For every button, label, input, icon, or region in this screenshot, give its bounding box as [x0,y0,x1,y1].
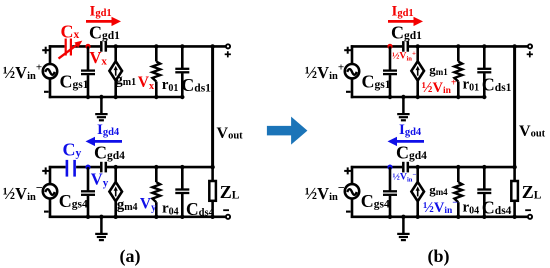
source polarity - mark [44,91,49,93]
voltage source ½Vin+ (a) [43,64,57,78]
dependent current source gm1 (diamond) [411,61,424,80]
wire: Cds4 branch lower [483,194,486,217]
junction dot Cgs1/bottom rail [86,95,90,99]
wire: left rail lower segment [49,199,52,219]
junction dot: Cds4 top [482,165,486,169]
junction dot: output node on top rail [512,44,516,48]
capacitor Cgs1 [81,71,95,75]
wire: Cgs1 branch upper [87,46,90,70]
capacitor Cgs4 [383,191,397,195]
junction dot: Cds1 bottom (rail end) [180,95,184,99]
junction dot: r01 bottom [154,95,158,99]
current Igd4 arrow (b) [388,137,425,146]
wire: dependent source branch lower [416,81,419,97]
wire: top rail right segment to ZL node [107,166,214,169]
wire: left rail lower segment [49,78,52,98]
dependent current source gm4 (diamond) [411,182,424,201]
wire: bottom rail (b top) [351,96,486,99]
capacitor Cds1 [175,69,189,73]
resistor r01 [454,62,462,82]
wire: Cds1 branch upper [181,46,184,68]
wire: dependent source branch upper [114,46,117,61]
junction dot Cgs4/bottom rail [86,215,90,219]
source polarity + mark [344,167,351,174]
junction dot: dependent source bottom [416,215,420,219]
output + mark [527,51,533,57]
wire: Cgs1 branch lower [389,75,392,97]
junction dot: dependent source bottom [114,215,118,219]
junction dot: r04 bottom [456,215,460,219]
wire: Cds4 branch upper [181,167,184,189]
wire: rail between Cx and Cgd1 [72,45,100,48]
resistor r01 [152,62,160,82]
wire: r04 branch lower [457,202,460,217]
junction dot: dependent source top [416,44,420,48]
ground (a bottom) [95,217,107,240]
output + mark [225,51,231,57]
dependent current source gm4 (diamond) [109,182,122,201]
capacitor Cy (blue, series on rail) [67,160,75,177]
wire: bottom rail (b bottom) [351,216,529,219]
wire: top rail left segment (b bottom) [351,166,402,169]
wire: bottom rail (a top) [49,96,184,99]
junction dot: dependent source bottom [416,95,420,99]
junction dot: r01 top [456,44,460,48]
voltage source ½Vin+ (b) [345,64,359,78]
junction dot: ZL bottom [210,215,214,219]
capacitor Cgs4 [81,191,95,195]
junction dot: Cds1 top [482,44,486,48]
wire: Cgs1 branch lower [87,75,90,97]
wire: r04 branch lower [155,202,158,217]
wire: Vout line (a) [211,46,214,167]
ground (b bottom) [397,217,409,240]
wire: ZL upper lead [211,167,214,181]
wire: dependent source branch upper [416,167,419,182]
wire: r01 branch lower [457,82,460,98]
junction dot: ground stem [401,215,405,219]
wire: r04 branch upper [457,167,460,182]
node Vx: red junction dot [85,44,90,49]
transformation arrow (blue, a to b) [267,117,308,145]
wire: dependent source branch lower [114,81,117,97]
wire: Cgs4 branch upper [87,167,90,191]
junction dot: dependent source bottom [114,95,118,99]
wire: Cgs1 branch upper [389,46,392,70]
wire: Cds1 branch lower [181,73,184,97]
junction dot: ground stem [99,95,103,99]
load impedance ZL (rectangle) [511,181,518,201]
capacitor Cds1 [477,69,491,73]
junction dot: r04 top [456,165,460,169]
voltage source ½Vin- (a) [43,184,57,198]
wire: ZL lower lead [513,201,516,217]
junction dot: r04 bottom [154,215,158,219]
wire: dependent source branch upper [416,46,419,61]
source polarity - mark [44,211,49,213]
wire: top rail right segment to output terminal [107,45,226,48]
output - mark [223,209,229,211]
wire: r01 branch upper [457,46,460,61]
node Vy: blue junction dot [85,165,90,170]
capacitor Cgd1 (series, on rail) [403,41,408,52]
junction dot: output node on top rail [210,44,214,48]
dependent current source gm1 (diamond) [109,61,122,80]
ground (a top) [95,97,107,120]
capacitor Cgs1 [383,71,397,75]
svg-text:(a): (a) [120,246,141,267]
wire: r04 branch upper [155,167,158,182]
junction dot: r04 top [154,165,158,169]
wire: Cds4 branch upper [483,167,486,189]
wire: left rail upper segment [49,45,52,64]
capacitor Cds4 [477,190,491,194]
wire: left rail upper segment [351,45,354,64]
wire: Cds1 branch upper [483,46,486,68]
output terminal (-) open circle [226,215,230,219]
wire: Cgs4 branch lower [87,196,90,217]
source polarity + mark [344,47,351,54]
svg-text:(b): (b) [428,246,450,267]
capacitor Cgd4 (series, on rail) [101,162,106,173]
wire: dependent source branch lower [114,201,117,217]
junction dot: ground stem [99,215,103,219]
current Igd1 arrow (red, right) [86,17,121,26]
capacitor Cx (red, variable, series on top rail) [59,39,83,59]
resistor r04 [454,182,462,202]
node ½Vin+: red junction dot [387,44,392,49]
source polarity - mark [346,211,351,213]
junction dot: dependent source top [114,44,118,48]
wire: top rail left segment (a bottom) [49,166,66,169]
source polarity + mark [42,167,49,174]
wire: bottom rail (a bottom) [49,216,227,219]
output - mark [525,209,531,211]
wire: top rail right segment to output terminal [409,45,528,48]
wire: top rail right segment to ZL node [409,166,516,169]
junction dot: r01 top [154,44,158,48]
wire: dependent source branch lower [416,201,419,217]
output terminal (-) open circle [528,215,532,219]
wire: r01 branch upper [155,46,158,61]
wire: Vout line (b) [513,46,516,167]
wire: Cds4 branch lower [181,194,184,217]
junction dot: Cds4 bottom (rail end) [180,215,184,219]
junction dot: r01 bottom [456,95,460,99]
junction dot: dependent source top [114,165,118,169]
wire: ZL lower lead [211,201,214,217]
wire: Cds1 branch lower [483,73,486,97]
wire: dependent source branch upper [114,167,117,182]
wire: r01 branch lower [155,82,158,98]
junction dot: Cds1 top [180,44,184,48]
voltage source ½Vin- (b) [345,184,359,198]
wire: Cgs4 branch lower [389,196,392,217]
capacitor Cgd4 (series, on rail) [403,162,408,173]
junction dot Cgs1/bottom rail [388,95,392,99]
junction dot: dependent source top [416,165,420,169]
wire: left rail lower segment [351,199,354,219]
junction dot: ZL top node [210,165,214,169]
wire: Cgs4 branch upper [389,167,392,191]
junction dot: Cds4 bottom (rail end) [482,215,486,219]
capacitor Cds4 [175,190,189,194]
current Igd1 arrow (b) [388,17,423,26]
wire: left rail upper segment [49,166,52,184]
ground (b top) [397,97,409,120]
current Igd4 arrow (blue, left) [86,137,123,146]
output terminal (+) open circle [226,44,230,48]
wire: top rail left segment (b top) [351,45,402,48]
capacitor Cgd1 (series, on rail) [101,41,106,52]
source polarity + mark [42,47,49,54]
wire: rail between Cy and Cgd4 [76,166,100,169]
wire: left rail upper segment [351,166,354,184]
junction dot: Cds4 top [180,165,184,169]
node ½Vin-: blue junction dot [387,165,392,170]
load impedance ZL (rectangle) [209,181,216,201]
resistor r04 [152,182,160,202]
wire: left rail lower segment [351,78,354,98]
junction dot: ZL top node [512,165,516,169]
source polarity - mark [346,91,351,93]
wire: ZL upper lead [513,167,516,181]
junction dot: ZL bottom [512,215,516,219]
wire: top rail left segment (a top) [49,45,65,48]
junction dot: ground stem [401,95,405,99]
junction dot: Cds1 bottom (rail end) [482,95,486,99]
output terminal (+) open circle [528,44,532,48]
junction dot Cgs4/bottom rail [388,215,392,219]
